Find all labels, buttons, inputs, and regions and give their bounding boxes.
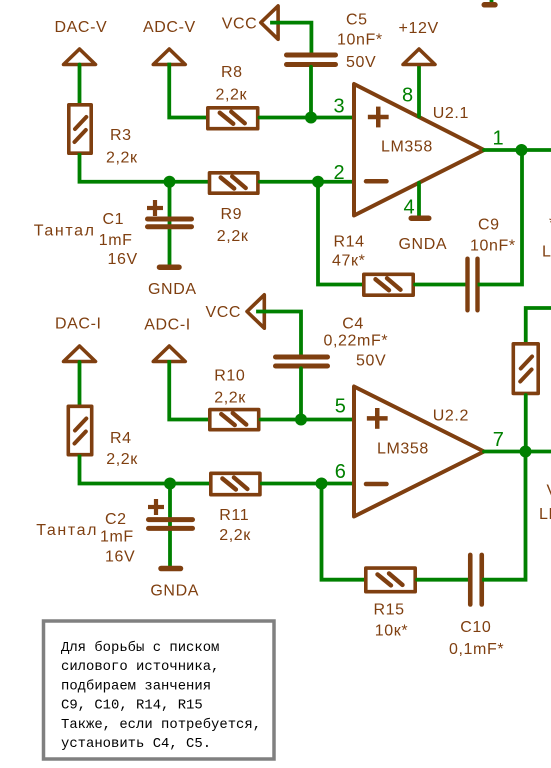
svg-text:GNDA: GNDA [148, 281, 197, 298]
svg-text:+12V: +12V [399, 20, 439, 37]
wire R3 to node A [80, 155, 209, 182]
wire R8 to pin3 [260, 116, 355, 120]
pin 6 number [335, 461, 346, 483]
node output junction 2 [520, 446, 532, 458]
svg-text:2,2к: 2,2к [217, 228, 249, 245]
op-amp U2.2 minus input [366, 482, 387, 487]
wire R15 to C10 [417, 578, 468, 582]
svg-text:C4: C4 [342, 315, 364, 332]
capacitor C2 [148, 499, 193, 528]
wire node A to C1 [168, 182, 172, 266]
svg-text:0,1mF*: 0,1mF* [449, 641, 504, 658]
wire stub top-right [490, 0, 494, 4]
label R15 [374, 602, 405, 619]
resistor R15 [366, 568, 415, 592]
wire C10 to output node [484, 452, 526, 580]
svg-text:R10: R10 [214, 368, 245, 385]
svg-text:C9, C10, R14, R15: C9, C10, R14, R15 [61, 698, 203, 714]
capacitor C9 [468, 259, 478, 311]
ground GNDA pin4 [411, 215, 429, 221]
wire R9 to pin2 [260, 180, 354, 184]
svg-text:2,2к: 2,2к [106, 150, 138, 167]
wire feedback to R14 [318, 182, 362, 285]
pin 3 number [334, 96, 345, 118]
svg-text:50V: 50V [356, 353, 386, 370]
resistor right column [513, 344, 538, 394]
wire output pin7 [484, 450, 551, 454]
svg-text:V: V [547, 483, 551, 500]
svg-text:2: 2 [334, 162, 345, 184]
svg-text:VCC: VCC [222, 16, 258, 33]
label R3 value [106, 150, 138, 167]
label C4 [342, 315, 364, 332]
svg-text:2,2к: 2,2к [216, 87, 248, 104]
capacitor C10 [470, 555, 482, 605]
capacitor C5 [287, 55, 336, 65]
svg-text:1mF: 1mF [100, 529, 134, 546]
label C1 type [34, 222, 96, 239]
svg-text:подбираем занчения: подбираем занчения [61, 677, 211, 694]
resistor R3 [69, 105, 91, 153]
label fragment star [549, 215, 551, 232]
svg-text:U2.2: U2.2 [433, 408, 469, 425]
svg-text:16V: 16V [105, 549, 135, 566]
svg-text:Также, если потребуется,: Также, если потребуется, [61, 716, 261, 733]
pin 2 number [334, 162, 345, 184]
svg-text:Для борьбы с писком: Для борьбы с писком [61, 639, 219, 656]
label C4 value [324, 333, 389, 370]
label C2 type [36, 522, 98, 539]
svg-text:0,22mF*: 0,22mF* [324, 333, 389, 350]
svg-text:GNDA: GNDA [150, 583, 199, 600]
wire R4 to node B [80, 457, 210, 484]
resistor R8 [208, 108, 258, 129]
label DAC-V [55, 19, 108, 36]
svg-text:ADC-V: ADC-V [143, 19, 196, 36]
wire ADC-I to R10 [169, 362, 208, 420]
label U2.1 [433, 105, 469, 122]
svg-text:2,2к: 2,2к [106, 451, 138, 468]
wire right column top [526, 308, 551, 343]
label C9 [478, 217, 500, 234]
label R8 [221, 64, 243, 81]
pin 8 number [402, 85, 413, 107]
label R11 [219, 507, 249, 524]
svg-text:8: 8 [402, 85, 413, 107]
resistor R11 [211, 473, 260, 494]
svg-text:R8: R8 [221, 64, 243, 81]
svg-text:DAC-V: DAC-V [55, 19, 108, 36]
label C10 value [449, 641, 504, 658]
wire node B to C2 [168, 484, 172, 568]
label C2 [105, 511, 127, 528]
label C10 [460, 619, 491, 636]
svg-text:6: 6 [335, 461, 346, 483]
node pin3 junction [305, 112, 317, 124]
label +12V [399, 20, 439, 37]
op-amp U2.2 [354, 387, 484, 517]
svg-text:GNDA: GNDA [399, 236, 448, 253]
svg-text:LM358: LM358 [377, 440, 429, 457]
port VCC mid [247, 295, 264, 328]
wire pin4 to GNDA [417, 183, 421, 216]
label ADC-I [144, 316, 191, 333]
wire ADC-V to R8 [169, 65, 207, 118]
svg-text:R4: R4 [110, 430, 132, 447]
svg-text:R3: R3 [110, 127, 132, 144]
svg-text:Тантал: Тантал [36, 522, 98, 539]
label C5 [346, 12, 368, 29]
pin 7 number [493, 429, 504, 451]
node pin5 junction [295, 414, 307, 426]
svg-text:U2.1: U2.1 [433, 105, 469, 122]
wire DAC-I to R4 [78, 362, 82, 406]
node output junction [516, 144, 528, 156]
node A junction [164, 176, 176, 188]
label R15 value [375, 623, 408, 640]
label VCC top [222, 16, 258, 33]
resistor R9 [210, 173, 258, 193]
op-amp U2.1 [354, 84, 484, 216]
svg-text:50V: 50V [346, 54, 376, 71]
label R8 value [216, 87, 248, 104]
svg-text:установить C4, C5.: установить C4, C5. [61, 736, 211, 752]
svg-text:R9: R9 [221, 206, 243, 223]
svg-text:4: 4 [404, 197, 415, 219]
port DAC-V [64, 49, 96, 65]
svg-text:47к*: 47к* [332, 253, 365, 270]
label GNDA under C2 [150, 583, 199, 600]
resistor R14 [364, 274, 413, 295]
svg-text:2,2к: 2,2к [219, 527, 251, 544]
label R4 [110, 430, 132, 447]
port +12V [403, 49, 435, 65]
label GNDA pin4 [399, 236, 448, 253]
svg-text:C2: C2 [105, 511, 127, 528]
svg-text:R15: R15 [374, 602, 405, 619]
svg-text:1: 1 [493, 128, 504, 150]
port DAC-I [64, 346, 96, 362]
wire VCC to C5 [272, 23, 311, 53]
label R14 [334, 234, 365, 251]
ground GNDA under C2 [161, 566, 181, 572]
node pin2 junction [312, 176, 324, 188]
label C9 value [470, 238, 516, 255]
label DAC-I [55, 315, 102, 332]
svg-text:2,2к: 2,2к [214, 390, 246, 407]
svg-text:LL: LL [539, 506, 551, 523]
pin 4 number [404, 197, 415, 219]
ground GNDA under C1 [160, 264, 180, 270]
label ADC-V [143, 19, 196, 36]
wire C5 to pin3 node [309, 67, 313, 118]
label C2 value [100, 529, 135, 566]
wire C9 to output node [480, 150, 523, 285]
label R10 [214, 368, 245, 385]
label VCC mid [206, 304, 242, 321]
label R4 value [106, 451, 138, 468]
wire output pin1 [484, 148, 551, 152]
node B junction [164, 478, 176, 490]
label C1 value [99, 232, 138, 268]
label GNDA under C1 [148, 281, 197, 298]
wire DAC-V to R3 [78, 65, 82, 106]
label R14 value [332, 253, 365, 270]
label LM358 U2.2 [377, 440, 429, 457]
wire R10 to pin5 [261, 418, 355, 422]
ground bar top-right [484, 2, 495, 8]
wire R14 to C9 [415, 283, 466, 287]
svg-text:R14: R14 [334, 234, 365, 251]
wire VCC to C4 [258, 312, 301, 356]
label fragment LL [539, 506, 551, 523]
capacitor C1 [147, 200, 192, 227]
op-amp U2.1 minus input [366, 179, 387, 184]
port ADC-I [153, 346, 185, 362]
pin 5 number [335, 396, 346, 418]
svg-text:Тантал: Тантал [34, 222, 96, 239]
label C5 value [337, 32, 383, 72]
resistor R4 [68, 406, 91, 454]
svg-text:10nF*: 10nF* [470, 238, 516, 255]
wire right resistor to out node [524, 395, 528, 452]
svg-text:R11: R11 [219, 507, 249, 524]
svg-text:1mF: 1mF [99, 232, 133, 249]
svg-text:VCC: VCC [206, 304, 242, 321]
svg-text:DAC-I: DAC-I [55, 315, 102, 332]
resistor R10 [210, 410, 259, 430]
port VCC top [261, 6, 278, 39]
svg-text:ADC-I: ADC-I [144, 316, 191, 333]
op-amp U2.1 plus input [368, 107, 389, 128]
svg-text:LM358: LM358 [381, 138, 433, 155]
svg-text:силового источника,: силового источника, [61, 659, 219, 675]
label R9 value [217, 228, 249, 245]
label C1 [103, 211, 125, 228]
node pin6 junction [316, 478, 328, 490]
label fragment L [542, 244, 551, 261]
label R3 [110, 127, 132, 144]
svg-text:C1: C1 [103, 211, 125, 228]
label fragment V [547, 483, 551, 500]
svg-text:16V: 16V [108, 251, 138, 268]
svg-text:10nF*: 10nF* [337, 32, 383, 49]
label R10 value [214, 390, 246, 407]
svg-text:L: L [542, 244, 551, 261]
label R11 value [219, 527, 251, 544]
wire pin8 to +12V [417, 66, 421, 117]
pin 1 number [493, 128, 504, 150]
svg-text:7: 7 [493, 429, 504, 451]
svg-text:10к*: 10к* [375, 623, 408, 640]
label LM358 U2.1 [381, 138, 433, 155]
svg-text:3: 3 [334, 96, 345, 118]
svg-text:C5: C5 [346, 12, 368, 29]
svg-text:5: 5 [335, 396, 346, 418]
op-amp U2.2 plus input [367, 408, 388, 429]
svg-text:C9: C9 [478, 217, 500, 234]
wire R11 to pin6 [262, 482, 354, 486]
label R9 [221, 206, 243, 223]
port ADC-V [153, 49, 185, 65]
wire C4 to pin5 node [299, 368, 303, 419]
capacitor C4 [276, 357, 328, 366]
svg-text:C10: C10 [460, 619, 491, 636]
wire feedback to R15 [322, 484, 365, 580]
note box [44, 621, 275, 759]
label U2.2 [433, 408, 469, 425]
